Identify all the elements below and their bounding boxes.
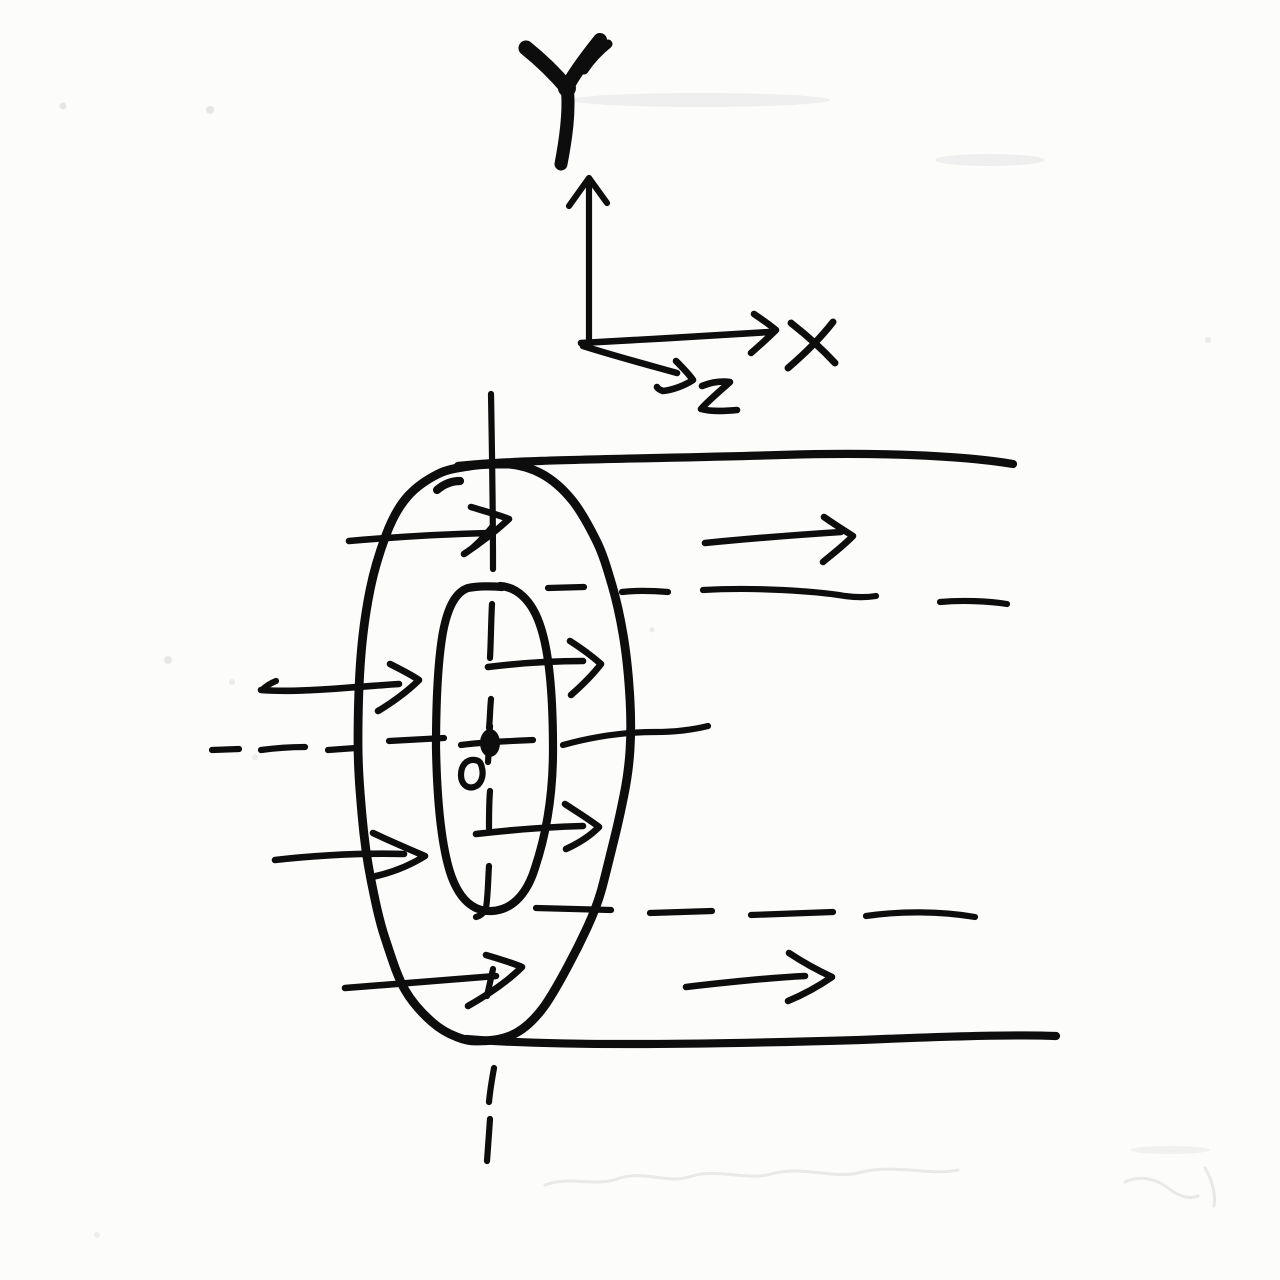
left dashed line segment 3: [328, 748, 356, 750]
top dashed line seg 2: [622, 591, 668, 592]
inner ellipse (hole): [436, 586, 553, 911]
Z axis label: [701, 382, 737, 411]
top dashed line seg 1: [548, 587, 584, 588]
cylinder top line going right: [458, 454, 1013, 466]
cylinder axis vertical dash 3: [489, 791, 490, 828]
arrow top crossing ellipse: shaft: [349, 533, 488, 541]
arrow bottom-right: shaft: [686, 976, 805, 987]
center line right wavy segment: [563, 726, 708, 745]
Y axis label: [526, 40, 608, 164]
top dashed line seg 3 wavy: [703, 589, 876, 597]
arrow left-middle: shaft: [261, 684, 399, 691]
arrow top-right: shaft: [705, 532, 841, 543]
arrow left-middle: left tick: [262, 681, 276, 690]
outer ellipse start hook: [437, 481, 460, 490]
cylinder bottom line going right: [466, 1035, 1056, 1044]
arrow bottom crossing ellipse: retrace stroke: [487, 969, 493, 996]
arrow bottom crossing ellipse: head: [468, 955, 522, 1006]
Y axis arrow: [569, 178, 607, 343]
top dashed line seg 4: [940, 601, 1007, 604]
arrow left-lower: head: [372, 833, 425, 877]
X axis arrow: [581, 314, 776, 353]
cylinder axis vertical dash 2: [489, 699, 491, 728]
arrow bottom crossing ellipse: shaft: [345, 976, 496, 988]
arrow upper-right inside: shaft: [488, 661, 583, 667]
arrow left-lower: shaft: [275, 854, 404, 860]
arrow left-middle: head: [378, 664, 419, 711]
cylinder axis vertical dash 1: [490, 604, 492, 658]
center line segment inside outer ellipse: [389, 738, 444, 741]
cylinder axis vertical line solid top: [491, 394, 493, 569]
O label: [461, 760, 483, 788]
origin point O: [480, 729, 500, 757]
bottom dashed line seg 3: [751, 912, 833, 915]
faint erased pencil squiggle bottom: [545, 1168, 1215, 1206]
arrow top crossing ellipse: head: [464, 507, 509, 554]
Z axis arrow: [583, 346, 693, 391]
bottom dashed line seg 2: [650, 911, 712, 913]
X axis label: [788, 322, 835, 368]
arrow bottom-right: head: [788, 953, 832, 1001]
cylinder axis vertical dash 4 with hook: [476, 866, 489, 917]
arrow top-right: head: [823, 517, 853, 562]
cylinder axis vertical dash 6 below: [487, 1119, 490, 1161]
arrow lower-right inside: shaft: [476, 826, 583, 834]
arrow lower-right inside: head: [565, 804, 599, 849]
origin cross horizontal: [461, 740, 533, 745]
bottom dashed line seg 1: [536, 908, 611, 910]
left dashed line segment 2: [261, 747, 305, 750]
arrow upper-right inside: head: [570, 641, 601, 695]
left dashed line segment 1: [212, 749, 239, 750]
cylinder axis vertical dash through origin: [488, 726, 490, 762]
bottom dashed line seg 4 wavy: [866, 912, 975, 917]
outer ellipse (near face of cylinder): [358, 464, 631, 1041]
cylinder axis vertical dash 5 below: [489, 1068, 494, 1102]
arrow top crossing ellipse: retrace stroke: [466, 527, 492, 553]
